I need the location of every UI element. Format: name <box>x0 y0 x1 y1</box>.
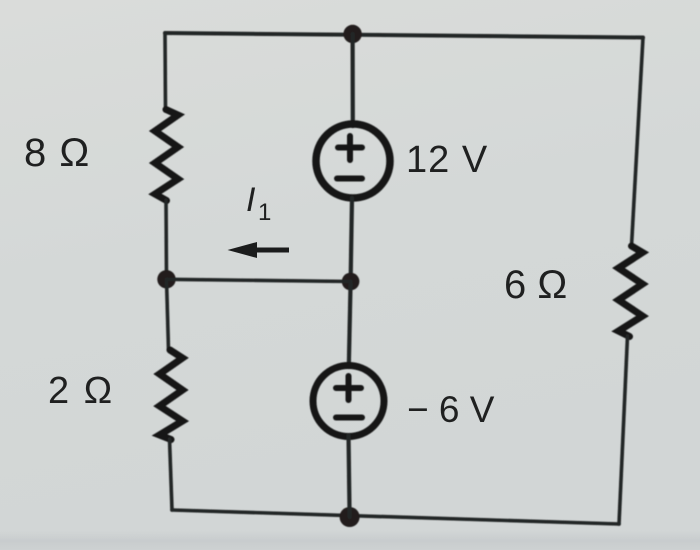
node top <box>343 25 361 43</box>
svg-text:− 6 V: − 6 V <box>407 389 495 430</box>
svg-text:8 Ω: 8 Ω <box>24 131 90 175</box>
svg-text:I: I <box>246 181 256 219</box>
wire left lower <box>167 279 169 350</box>
resistor R2 2ohm <box>160 350 183 440</box>
wire middle horizontal <box>167 279 351 281</box>
wire bottom <box>172 510 619 524</box>
wire right lower <box>619 336 628 524</box>
node left-middle <box>157 270 175 288</box>
wire left upper <box>163 33 167 111</box>
bottom bezel strip <box>0 0 1 1</box>
svg-text:1: 1 <box>258 199 271 226</box>
svg-text:12 V: 12 V <box>406 139 488 181</box>
V1 plus sign <box>338 136 362 160</box>
V2 plus sign <box>336 376 361 400</box>
node bottom <box>340 507 360 527</box>
wire left bottom <box>170 439 173 510</box>
wire middle bottom <box>349 435 350 517</box>
V1 minus sign <box>337 176 362 182</box>
svg-text:2 Ω: 2 Ω <box>48 370 114 412</box>
wire top <box>165 33 643 38</box>
wire middle mid1 <box>351 198 352 282</box>
svg-text:6 Ω: 6 Ω <box>504 263 567 307</box>
resistor R1 8ohm <box>155 110 178 201</box>
wire middle mid2 <box>349 282 351 368</box>
node middle <box>342 273 360 291</box>
source V1 12V circle <box>316 124 390 198</box>
wire middle upper <box>351 34 355 126</box>
resistor R3 6ohm <box>619 246 643 337</box>
arrow I1 <box>228 242 290 258</box>
V2 minus sign <box>336 415 362 421</box>
wire right upper <box>632 38 644 247</box>
source V2 -6V circle <box>313 366 384 437</box>
wire left middle <box>164 200 168 279</box>
